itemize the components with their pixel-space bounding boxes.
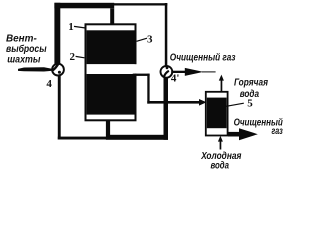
svg-text:2: 2 [70,51,76,63]
white gap in reactor right wall at separator level [134,64,137,73]
wire: thick duct right riser into reactor top [110,8,114,25]
wire: outlet vertical down [147,74,149,104]
arrow: hot water up [221,80,223,92]
blower 4' [161,66,173,78]
wire: thick right riser up to blower 4' [164,77,169,140]
heat exchanger 5 [206,92,228,136]
wire: thick top duct horizontal [54,3,114,9]
wire: thick pipe from reactor bottom [106,121,110,135]
arrow: cold water up into exchanger [220,141,222,150]
wire: thick inlet duct left riser (blower 4 to top) [54,3,60,65]
svg-text:вода: вода [211,160,230,172]
wire: reactor right side outlet stub [133,74,150,76]
label 5 leader [226,103,244,106]
arrow: cleaned gas from blower 4' [171,71,185,73]
reactor catalyst bed lower (black) [87,74,135,115]
wire: thick bottom bar [106,135,168,140]
reactor vessel 1-2-3 outline [86,24,136,120]
wire: thin top line to blower 4' [114,3,167,5]
svg-text:4: 4 [46,78,52,90]
label 3 leader [137,38,147,41]
wire: thin bottom horizontal to center pipe [58,137,108,140]
svg-text:Горячая: Горячая [234,77,268,89]
label 2 leader [76,56,85,57]
blower 4 [52,64,64,76]
svg-text:3: 3 [147,33,153,45]
inlet arrow (vent emissions) [18,67,53,71]
label 1 leader [74,26,86,28]
svg-text:4': 4' [171,73,180,85]
reactor catalyst bed upper (black) [87,30,135,64]
svg-text:шахты: шахты [7,54,40,66]
svg-text:газ: газ [272,125,284,137]
wire: thin riser down to blower 4' top [165,3,168,67]
wire: thin line from blower 4 bottom down [58,75,61,140]
heat exchanger packing (black) [207,98,227,129]
svg-text:Очищенный газ: Очищенный газ [170,52,236,64]
svg-text:1: 1 [68,21,74,33]
arrow: cleaned gas out bottom right [228,132,240,137]
wire: outlet horizontal to heat exchanger with arrow [147,101,199,104]
svg-text:вода: вода [240,88,259,100]
